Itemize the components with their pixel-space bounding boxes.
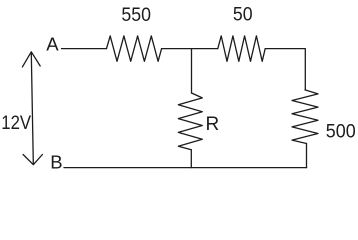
wire top from node A to resistor 550: [62, 48, 107, 50]
wire R bottom lead: [190, 150, 192, 168]
voltage arrow head bottom: [23, 155, 42, 165]
resistor 550: [107, 36, 162, 61]
svg-text:R: R: [206, 114, 220, 135]
resistor 50: [218, 36, 265, 61]
voltage arrow shaft: [31, 53, 33, 164]
voltage arrow head top: [22, 52, 40, 67]
svg-text:500: 500: [326, 121, 356, 142]
svg-text:A: A: [46, 33, 59, 54]
svg-text:550: 550: [121, 5, 151, 26]
wire stub from top wire down to resistor R: [191, 49, 193, 93]
wire top right to corner and down: [265, 49, 305, 90]
svg-text:50: 50: [233, 5, 253, 26]
svg-text:12V: 12V: [1, 113, 31, 134]
wire 500 bottom lead: [306, 144, 308, 168]
wire bottom from node B to right: [64, 167, 307, 169]
wire top between 550 and 50: [162, 48, 218, 50]
resistor R: [178, 93, 202, 150]
resistor 500: [292, 90, 318, 144]
svg-text:B: B: [50, 152, 62, 173]
